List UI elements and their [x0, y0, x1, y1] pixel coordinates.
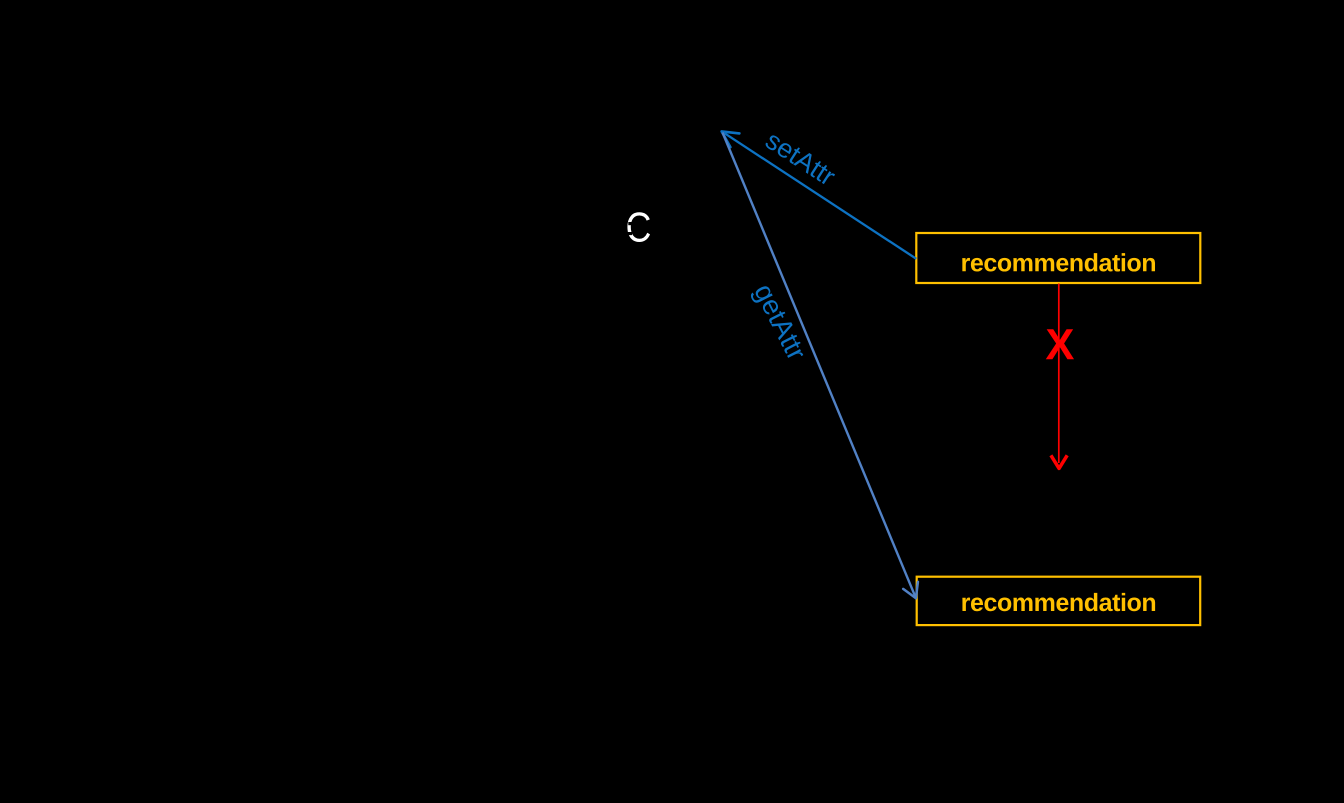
wire setAttr arrow (bright blue line from top box left edge to tip): [722, 132, 916, 259]
box recommendation (top): [916, 233, 1200, 283]
arrowhead of getAttr at bottom box: [903, 582, 918, 598]
red blocked arrow (vertical line): [1058, 284, 1060, 464]
label getAttr: [749, 282, 807, 364]
label setAttr: [764, 130, 837, 187]
wire getAttr arrow (light blue line from tip to bottom box): [723, 133, 916, 598]
label recommendation (top): [962, 253, 1155, 271]
arrowhead of setAttr at tip: [722, 131, 740, 147]
node C (white partial letter C): [627, 212, 650, 242]
black gap marks over C: [627, 222, 633, 235]
box recommendation (bottom): [917, 577, 1200, 625]
red X block mark: [1046, 329, 1074, 359]
label recommendation (bottom): [962, 593, 1155, 611]
red arrowhead: [1051, 455, 1067, 468]
